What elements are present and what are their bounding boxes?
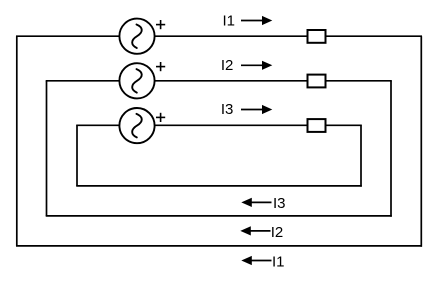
wire: V1 right terminal to R1: [155, 35, 308, 37]
current arrow I2 (top, pointing right): [241, 61, 272, 70]
resistor R1: [308, 30, 326, 43]
wire: outer loop right side: [420, 36, 422, 247]
wire: V1 left terminal to outer loop left side: [16, 35, 119, 37]
svg-text:I1: I1: [223, 13, 236, 30]
wire: R1 to outer loop right side: [326, 35, 423, 37]
wire: outer loop bottom: [16, 245, 422, 247]
wire: middle loop bottom: [46, 215, 392, 217]
wire: V2 left terminal to middle loop left side: [46, 80, 119, 82]
current arrow I2 (bottom, pointing left): [240, 226, 270, 235]
resistor R2: [308, 75, 326, 88]
current arrow I1 (top, pointing right): [241, 16, 272, 25]
wire: inner loop bottom: [76, 185, 362, 187]
svg-text:I2: I2: [221, 57, 234, 74]
wire: R3 to inner loop right side: [326, 124, 362, 126]
wire: outer loop left side: [16, 36, 18, 246]
current arrow I1 (bottom, pointing left): [241, 256, 271, 265]
current arrow I3 (bottom, pointing left): [241, 198, 271, 207]
wire: inner loop left side: [76, 125, 78, 186]
svg-text:I2: I2: [271, 224, 284, 241]
wire: V2 right terminal to R2: [155, 80, 308, 82]
ac voltage source V2: [119, 63, 154, 98]
plus polarity mark of V3: [156, 113, 165, 122]
current arrow I3 (top, pointing right): [241, 105, 272, 114]
ac voltage source V1: [119, 19, 154, 54]
resistor R3: [308, 119, 326, 132]
svg-text:I3: I3: [221, 101, 234, 118]
plus polarity mark of V1: [156, 20, 165, 29]
wire: V3 left terminal to inner loop left side: [76, 124, 119, 126]
wire: middle loop right side: [390, 81, 392, 217]
svg-text:I3: I3: [273, 195, 286, 212]
wire: V3 right terminal to R3: [155, 124, 308, 126]
wire: R2 to middle loop right side: [326, 80, 392, 82]
plus polarity mark of V2: [156, 62, 165, 71]
wire: inner loop right side: [360, 125, 362, 186]
svg-text:I1: I1: [272, 254, 285, 271]
wire: middle loop left side: [46, 81, 48, 216]
ac voltage source V3: [119, 108, 154, 143]
